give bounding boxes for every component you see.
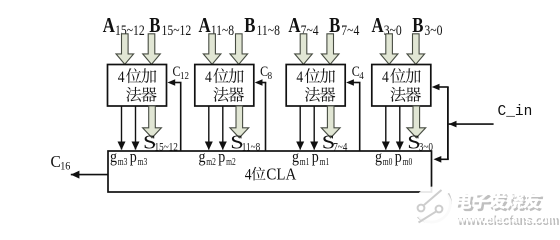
4-bit adder U1 box	[108, 65, 167, 107]
4-bit adder U4 box	[372, 65, 431, 107]
svg-text:A: A	[372, 14, 384, 37]
sum output arrow S box2	[230, 106, 249, 138]
4-bit adder U2 box	[195, 65, 254, 107]
svg-text:7~4: 7~4	[341, 22, 359, 39]
4-bit CLA box	[108, 151, 432, 192]
svg-text:m0: m0	[383, 156, 393, 167]
svg-text:m1: m1	[320, 156, 330, 167]
label gm0 pm0	[375, 148, 413, 167]
input arrow box4 B	[407, 34, 425, 65]
svg-text:m3: m3	[118, 156, 128, 167]
wire C12 horizontal into adder	[174, 82, 182, 84]
wire g U3 to CLA	[299, 106, 301, 150]
wire C_in into CLA right edge	[440, 158, 449, 160]
svg-text:C_in: C_in	[498, 104, 533, 120]
watermark text 电子发烧友	[457, 194, 475, 211]
svg-text:A: A	[103, 14, 115, 37]
wire C4 vertical from CLA	[359, 83, 361, 152]
svg-text:g: g	[199, 148, 206, 166]
label gm3 pm3	[110, 148, 148, 167]
svg-text:7~4: 7~4	[333, 142, 348, 154]
svg-text:4: 4	[118, 69, 125, 86]
svg-text:15~12: 15~12	[115, 22, 145, 39]
wire p U4 to CLA	[399, 106, 401, 150]
svg-text:4: 4	[382, 69, 389, 86]
input arrow box1 B	[143, 34, 161, 65]
svg-text:g: g	[110, 148, 117, 166]
svg-text:3~0: 3~0	[424, 22, 442, 39]
wire g U2 to CLA	[208, 106, 210, 150]
label gm2 pm2	[199, 148, 237, 167]
svg-text:m3: m3	[138, 156, 148, 167]
svg-text:A: A	[288, 14, 300, 37]
wire carry into adder U4	[438, 86, 449, 88]
input arrow box3 B	[321, 34, 339, 65]
svg-text:www.elecfans.com: www.elecfans.com	[455, 211, 557, 226]
svg-text:4: 4	[205, 69, 212, 86]
input arrow box2 B	[230, 34, 248, 65]
svg-text:15~12: 15~12	[155, 142, 178, 154]
svg-text:16: 16	[60, 160, 71, 173]
svg-text:11~8: 11~8	[257, 22, 281, 39]
4-bit adder U3 box	[286, 65, 345, 107]
svg-text:p: p	[130, 148, 137, 166]
wire C16 out	[71, 174, 108, 176]
wire p U3 to CLA	[313, 106, 315, 150]
svg-text:CLA: CLA	[266, 166, 296, 184]
svg-text:11~8: 11~8	[242, 142, 260, 154]
wire C12 vertical from CLA	[180, 83, 182, 152]
sum output arrow S box3	[321, 106, 340, 138]
svg-text:p: p	[218, 148, 225, 166]
input arrow box1 A	[116, 34, 134, 65]
svg-text:p: p	[395, 148, 402, 166]
svg-text:4: 4	[245, 167, 252, 184]
watermark logo elecfans disc	[414, 187, 452, 225]
wire p U1 to CLA	[135, 106, 137, 150]
svg-text:g: g	[292, 148, 299, 166]
svg-text:8: 8	[268, 71, 273, 83]
input arrow box4 A	[380, 34, 398, 65]
wire g U4 to CLA	[385, 106, 387, 150]
svg-text:B: B	[244, 14, 255, 37]
wire C_in vertical	[447, 87, 449, 159]
svg-text:4: 4	[296, 69, 303, 86]
svg-text:C: C	[51, 151, 61, 171]
wire C8 vertical from CLA	[265, 83, 267, 152]
svg-text:15~12: 15~12	[162, 22, 192, 39]
svg-text:m1: m1	[300, 156, 310, 167]
label gm1 pm1	[292, 148, 330, 167]
svg-text:4: 4	[359, 71, 364, 83]
wire C_in input line	[449, 123, 494, 125]
svg-text:g: g	[375, 148, 382, 166]
svg-text:p: p	[312, 148, 319, 166]
svg-text:m2: m2	[226, 156, 236, 167]
input arrow box3 A	[295, 34, 313, 65]
wire C8 horizontal into adder	[261, 82, 267, 84]
sum output arrow S box1	[143, 106, 162, 138]
svg-text:12: 12	[180, 71, 189, 83]
svg-text:m0: m0	[403, 156, 413, 167]
wire C4 horizontal into adder	[352, 82, 360, 84]
svg-text:m2: m2	[206, 156, 216, 167]
wire g U1 to CLA	[121, 106, 123, 150]
sum output arrow S box4	[407, 106, 426, 138]
input arrow box2 A	[203, 34, 221, 65]
wire p U2 to CLA	[222, 106, 224, 150]
